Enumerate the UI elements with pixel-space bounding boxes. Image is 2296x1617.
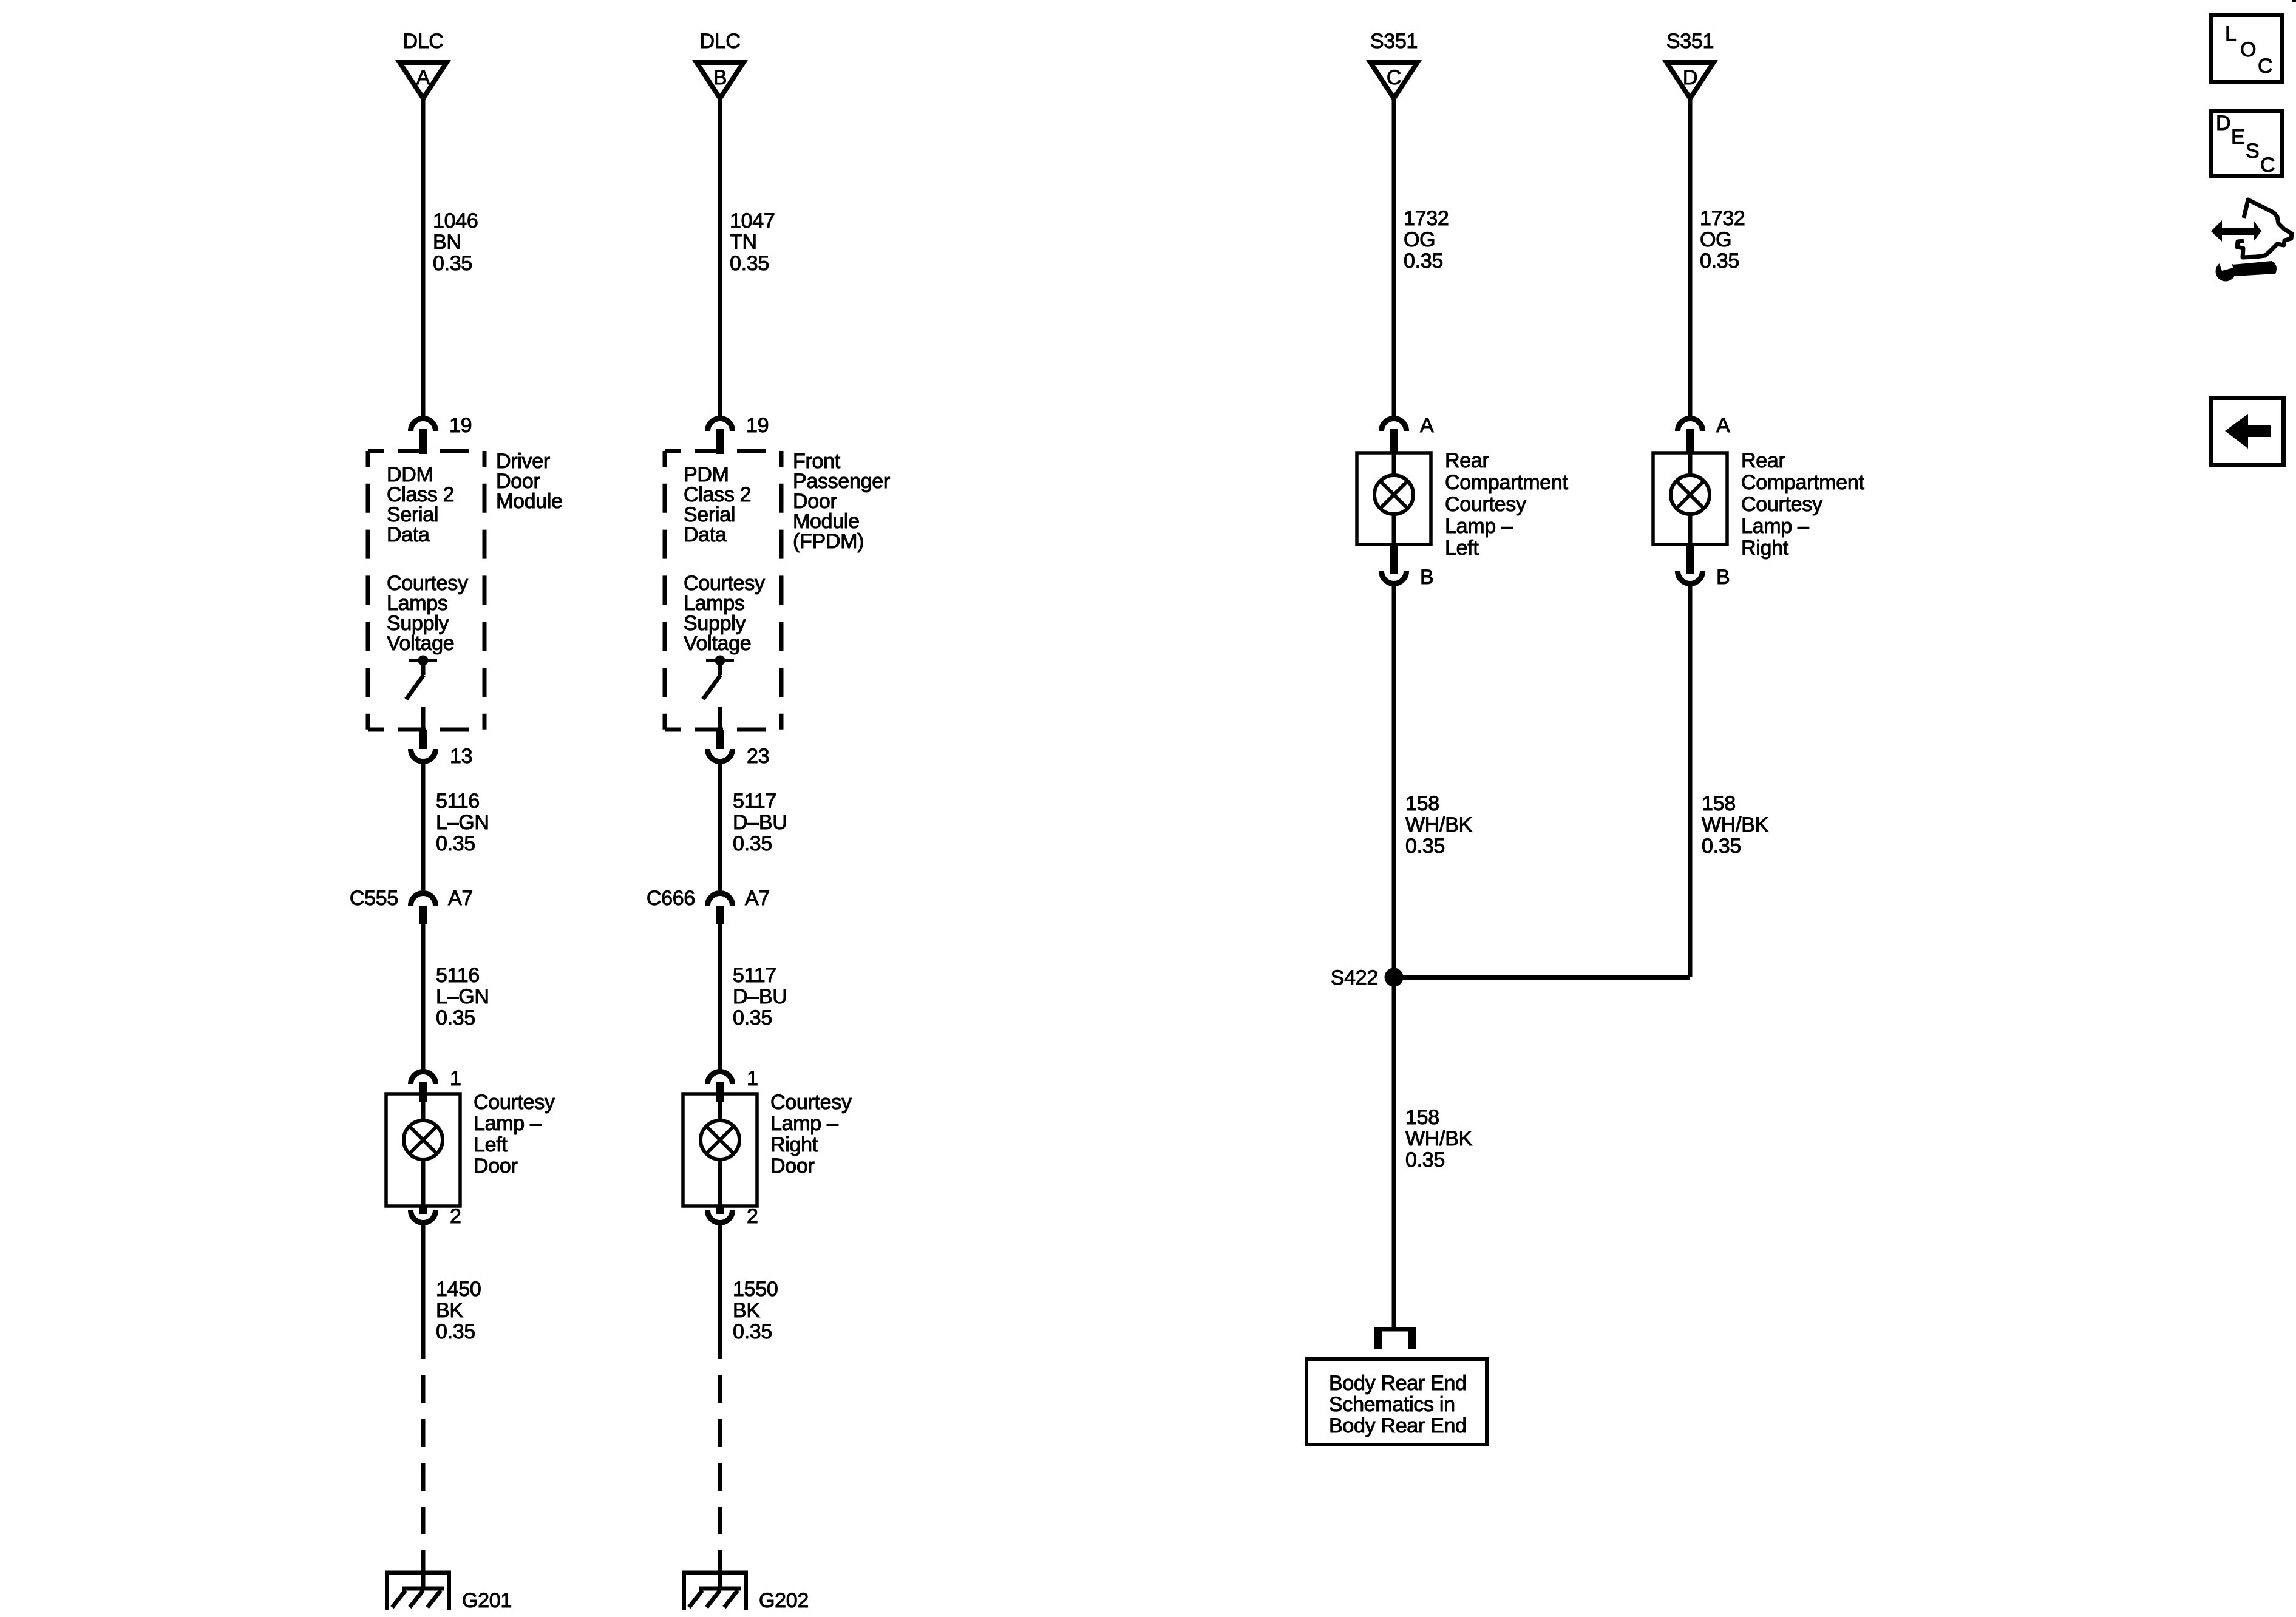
pin B of rear compartment courtesy lamp left [1382,543,1407,584]
wire DDM pin13 to C555 [421,761,426,890]
svg-text:TN: TN [730,231,757,254]
pin 1 of courtesy lamp left door [411,1072,436,1103]
svg-text:Voltage: Voltage [387,632,454,655]
svg-text:S: S [2246,140,2259,163]
off-page connector triangle B (DLC) [697,63,744,98]
svg-text:Left: Left [474,1133,508,1156]
wire horizontal branch to S422 [1394,975,1690,980]
svg-text:5116: 5116 [436,964,480,987]
svg-text:B: B [1420,566,1433,589]
svg-text:(FPDM): (FPDM) [793,530,864,553]
svg-text:E: E [2231,126,2244,149]
svg-text:0.35: 0.35 [730,252,769,275]
svg-text:Courtesy: Courtesy [1445,493,1526,516]
svg-text:S351: S351 [1666,30,1714,53]
svg-text:L–GN: L–GN [436,985,489,1008]
splice connector triangle C (S351) [1371,63,1418,98]
svg-text:G201: G201 [462,1589,512,1612]
module DDM (Driver Door Module) dashed box [368,449,484,453]
back arrow icon box [2212,398,2284,466]
svg-text:Compartment: Compartment [1741,471,1865,494]
ground G201 [385,1571,512,1612]
svg-text:A: A [416,66,430,89]
svg-text:Right: Right [1741,537,1789,560]
svg-text:Data: Data [387,523,430,546]
svg-text:C: C [2260,154,2275,177]
svg-text:Body Rear End: Body Rear End [1329,1414,1467,1437]
svg-text:OG: OG [1700,228,1731,251]
svg-text:C666: C666 [647,887,695,910]
wire DLC-B to PDM pin 19 [718,100,722,418]
svg-text:A7: A7 [448,887,473,910]
svg-text:158: 158 [1702,792,1736,815]
lamp: Courtesy Lamp Left Door [386,1094,460,1206]
pin 1 of courtesy lamp right door [708,1072,733,1103]
switch inside DDM [406,656,437,730]
pin 19 socket of DDM [411,418,436,454]
svg-text:L–GN: L–GN [436,811,489,834]
dashed wire to ground G201 [421,1375,426,1573]
wire S351-C to rear lamp left [1392,100,1396,418]
svg-text:B: B [713,66,727,89]
wire rear lamp left pin B to S422 and below [1392,584,1396,1327]
svg-text:1047: 1047 [730,209,775,232]
svg-text:0.35: 0.35 [436,1320,475,1343]
svg-text:0.35: 0.35 [733,1006,772,1029]
module PDM (Front Passenger Door Module) dashed box [665,449,781,453]
svg-text:Rear: Rear [1445,449,1489,472]
svg-text:19: 19 [449,414,472,437]
page corner tick mark [2292,0,2296,2]
reference box: Body Rear End Schematics [1306,1359,1487,1445]
off-page connector triangle A (DLC) [400,63,447,98]
svg-text:Schematics in: Schematics in [1329,1393,1455,1416]
svg-text:2: 2 [747,1205,758,1228]
svg-text:Courtesy: Courtesy [770,1091,852,1114]
svg-text:1732: 1732 [1700,207,1745,230]
svg-text:BK: BK [733,1299,760,1322]
svg-text:158: 158 [1405,1106,1439,1129]
svg-text:L: L [2225,22,2237,46]
svg-text:Lamp –: Lamp – [1445,515,1513,538]
svg-text:DLC: DLC [402,30,443,53]
svg-text:C: C [1387,66,1401,89]
svg-text:O: O [2240,38,2256,61]
wire DLC-A to DDM pin 19 [421,100,426,418]
svg-text:Door: Door [474,1154,518,1178]
svg-text:Lamp –: Lamp – [1741,515,1809,538]
svg-text:1: 1 [450,1067,461,1090]
svg-text:Body Rear End: Body Rear End [1329,1372,1467,1395]
svg-text:D–BU: D–BU [733,811,787,834]
svg-text:0.35: 0.35 [433,252,472,275]
svg-text:0.35: 0.35 [733,832,772,855]
svg-text:5117: 5117 [733,790,776,813]
dashed wire to ground G202 [718,1375,722,1573]
pin B of rear compartment courtesy lamp right [1678,543,1703,584]
svg-text:WH/BK: WH/BK [1702,813,1769,836]
svg-text:0.35: 0.35 [436,832,475,855]
svg-text:13: 13 [450,745,472,768]
svg-text:23: 23 [747,745,769,768]
svg-text:Rear: Rear [1741,449,1785,472]
connector bracket to body rear end [1374,1327,1416,1349]
svg-text:Lamp –: Lamp – [770,1112,838,1135]
svg-text:158: 158 [1405,792,1439,815]
svg-text:0.35: 0.35 [1405,835,1445,858]
wire lamp pin2 down (right door) [718,1222,722,1359]
svg-text:Lamp –: Lamp – [474,1112,542,1135]
svg-text:0.35: 0.35 [733,1320,772,1343]
svg-text:Compartment: Compartment [1445,471,1569,494]
splice S422 junction dot [1385,968,1404,987]
svg-text:Left: Left [1445,537,1479,560]
lamp: Rear Compartment Courtesy Lamp Left [1357,453,1431,544]
pin 19 socket of PDM [708,418,733,454]
connector C555 pin A7 [411,893,436,925]
ground G202 [682,1571,809,1612]
svg-text:0.35: 0.35 [1405,1148,1445,1171]
svg-text:A: A [1420,414,1434,437]
wire lamp pin2 down [421,1222,426,1359]
wire C666 to courtesy lamp right door [718,924,722,1070]
svg-text:BN: BN [433,231,461,254]
svg-text:D: D [1683,66,1697,89]
svg-text:1: 1 [747,1067,758,1090]
svg-text:OG: OG [1404,228,1435,251]
svg-text:Courtesy: Courtesy [1741,493,1822,516]
pin A of rear compartment courtesy lamp right [1678,418,1703,454]
svg-text:S351: S351 [1370,30,1418,53]
pin 2 of courtesy lamp left door [411,1205,436,1222]
wire PDM pin23 to C666 [718,761,722,890]
svg-text:B: B [1716,566,1730,589]
svg-text:1732: 1732 [1404,207,1449,230]
svg-text:C555: C555 [350,887,398,910]
splice connector triangle D (S351) [1667,63,1714,98]
svg-text:Right: Right [770,1133,818,1156]
svg-text:0.35: 0.35 [1702,835,1741,858]
svg-text:1046: 1046 [433,209,478,232]
svg-text:Door: Door [770,1154,815,1178]
svg-text:A7: A7 [745,887,770,910]
svg-text:WH/BK: WH/BK [1405,813,1473,836]
switch inside PDM [703,656,734,730]
lamp: Rear Compartment Courtesy Lamp Right [1653,453,1727,544]
pin 13 socket of DDM [411,730,436,761]
DESC icon box [2212,111,2283,177]
pin 23 socket of PDM [708,730,733,761]
svg-text:5117: 5117 [733,964,776,987]
svg-text:0.35: 0.35 [1700,249,1739,273]
pin A of rear compartment courtesy lamp left [1382,418,1407,454]
svg-text:DLC: DLC [699,30,740,53]
svg-text:S422: S422 [1331,966,1378,989]
svg-text:0.35: 0.35 [436,1006,475,1029]
lamp: Courtesy Lamp Right Door [683,1094,757,1206]
svg-text:A: A [1716,414,1730,437]
svg-text:D–BU: D–BU [733,985,787,1008]
svg-text:1450: 1450 [436,1278,481,1301]
pin 2 of courtesy lamp right door [708,1205,733,1222]
svg-text:Courtesy: Courtesy [474,1091,555,1114]
svg-text:Module: Module [496,490,563,513]
connector C666 pin A7 [708,893,733,925]
svg-text:5116: 5116 [436,790,480,813]
svg-text:0.35: 0.35 [1404,249,1443,273]
svg-text:WH/BK: WH/BK [1405,1127,1473,1150]
svg-text:2: 2 [450,1205,461,1228]
svg-text:BK: BK [436,1299,463,1322]
wire C555 to courtesy lamp left door [421,924,426,1070]
connector-service icon (double arrow, connector outline, wrench) [2211,200,2292,282]
svg-text:1550: 1550 [733,1278,778,1301]
svg-text:Voltage: Voltage [684,632,751,655]
wire rear lamp right pin B down to S422 branch [1688,584,1693,977]
svg-text:Data: Data [684,523,727,546]
svg-text:C: C [2258,55,2272,78]
svg-text:G202: G202 [759,1589,809,1612]
LOC icon box [2212,15,2283,83]
svg-text:19: 19 [746,414,769,437]
svg-text:D: D [2216,112,2230,135]
wire S351-D to rear lamp right [1688,100,1693,418]
